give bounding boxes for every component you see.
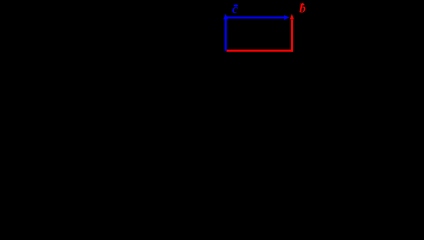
arrowhead: blue vector c tip (pointing right) bbox=[284, 15, 289, 20]
wire: red path of vector b (right vertical segment) bbox=[291, 19, 293, 51]
wire: blue horizontal vector c shaft (top) bbox=[226, 16, 285, 18]
svg-text:b: b bbox=[299, 1, 306, 16]
label: vector c (blue italic letter with arrow hat) bbox=[232, 1, 238, 16]
arrowhead: blue vertical vector tip (pointing up) bbox=[223, 14, 228, 19]
label: vector b (red italic letter with arrow hat) bbox=[299, 1, 306, 16]
wire: red path of vector b (bottom horizontal segment) bbox=[227, 50, 294, 52]
wire: blue vertical vector shaft (left side) bbox=[225, 19, 227, 51]
svg-text:c: c bbox=[232, 1, 238, 16]
arrowhead: red vector b tip (pointing up) bbox=[290, 14, 294, 19]
